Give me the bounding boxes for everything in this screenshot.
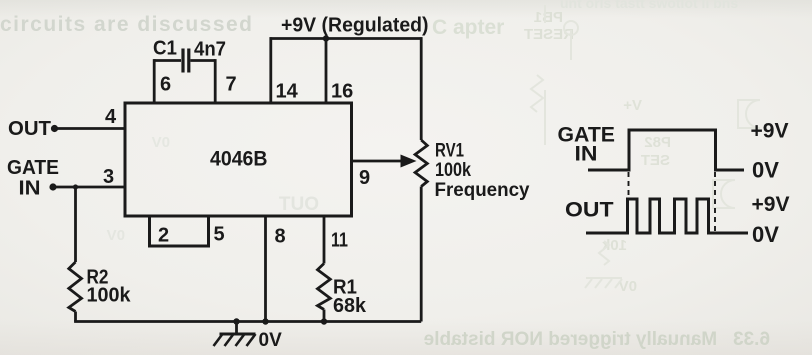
junction dot pin 8 at rail [262,318,268,324]
svg-text:unt orls tastt swotlot li bns: unt orls tastt swotlot li bns [560,0,738,11]
svg-text:C apter: C apter [432,16,504,39]
svg-text:C1: C1 [153,38,177,60]
svg-text:100k: 100k [435,160,471,181]
wire pin 9 to RV1 wiper [353,160,403,163]
svg-text:100k: 100k [87,285,132,307]
svg-text:+9V: +9V [752,193,790,216]
wire pin 16 stub [325,39,328,104]
svg-text:0V: 0V [152,134,170,151]
svg-text:Frequency: Frequency [435,180,530,201]
wire pin 7 stub [214,59,217,103]
resistor R2 [69,187,82,322]
svg-text:SET: SET [641,152,670,169]
junction dot at R2 tap on GATE IN lead [73,184,78,189]
svg-text:7: 7 [226,74,237,96]
svg-text:+9V: +9V [751,120,789,143]
svg-text:6.33 Manually triggered NOR: 6.33 Manually triggered NOR bistable [424,329,770,350]
dashed alignment line at gate rising edge [628,172,630,197]
potentiometer RV1 [415,140,427,187]
svg-text:68k: 68k [333,295,367,317]
GATE IN waveform trace [588,130,744,170]
svg-text:11: 11 [331,230,348,252]
svg-text:0V: 0V [752,158,779,183]
svg-text:RV1: RV1 [435,141,464,162]
svg-text:V+: V+ [623,97,642,114]
OUT waveform trace [586,199,748,233]
svg-text:4n7: 4n7 [194,39,226,61]
wire pin 8 to 0V rail [264,217,267,322]
svg-text:4: 4 [105,106,117,128]
wire pin 4 (OUT lead) [55,127,126,130]
IC U1 4046B [125,103,352,216]
svg-text:14: 14 [276,81,299,103]
svg-text:IN: IN [19,178,41,200]
svg-text:9: 9 [359,167,370,189]
wire +9V right vertical down to 0V rail [420,37,423,321]
RV1 wiper arrowhead [401,155,417,168]
wire pin 3 (GATE IN lead) [53,186,125,189]
GATE IN terminal label [7,157,59,200]
GATE IN waveform label [558,124,616,166]
svg-text:GATE: GATE [7,157,59,179]
svg-text:+9V (Regulated): +9V (Regulated) [281,15,429,37]
svg-text:0V: 0V [752,222,779,247]
svg-text:5: 5 [214,224,225,246]
ground symbol [214,322,256,347]
svg-text:3: 3 [103,166,114,188]
svg-text:OUT: OUT [8,118,51,140]
svg-text:OUT: OUT [565,199,614,222]
OUT terminal dot [51,125,58,132]
svg-text:circuits are discussed: circuits are discussed [0,13,252,36]
svg-text:0V: 0V [259,330,283,351]
resistor R1 [318,217,331,322]
wire 0V bottom rail [74,320,421,323]
junction dot on +9V rail at pin 16 [323,35,329,41]
dashed alignment line at gate falling edge [714,172,716,231]
pins 2-5 link bracket [150,217,209,247]
ground junction dot [233,318,239,324]
svg-text:8: 8 [275,226,286,248]
svg-text:0V: 0V [107,227,125,244]
wire pin 14 stub [269,37,272,103]
wire +9V rail [270,37,423,40]
svg-text:6: 6 [160,74,171,96]
capacitor C1 [154,49,215,73]
wire pin 6 stub [153,59,156,103]
svg-text:OUT: OUT [279,194,320,215]
svg-text:PB1: PB1 [534,9,563,26]
svg-text:16: 16 [331,81,353,103]
svg-text:2: 2 [158,225,169,247]
svg-text:P82: P82 [644,134,671,151]
svg-text:IN: IN [575,143,598,166]
GATE IN terminal dot [49,183,56,190]
svg-text:4046B: 4046B [210,148,268,171]
svg-text:10k: 10k [601,237,627,254]
junction dot R1 at rail [321,318,327,324]
